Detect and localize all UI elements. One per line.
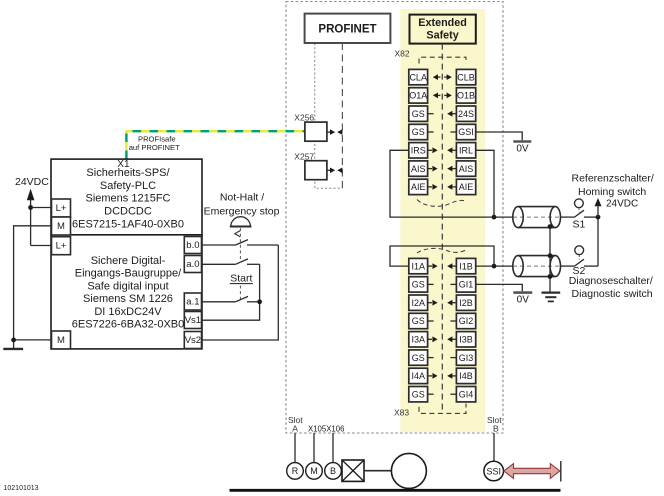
wire I1B to cable <box>476 265 513 267</box>
stub GI3 <box>450 357 456 359</box>
svg-text:SSI: SSI <box>486 466 501 476</box>
drive unit dashed enclosure <box>286 2 503 434</box>
release mark <box>235 231 240 237</box>
svg-text:O1A: O1A <box>409 91 427 101</box>
svg-text:6ES7226-6BA32-0XB0: 6ES7226-6BA32-0XB0 <box>72 319 185 331</box>
wire b.0 <box>202 244 236 246</box>
end stop bar <box>560 461 562 482</box>
signal arrow I3B <box>447 336 456 342</box>
signal arrow IRS <box>428 147 438 153</box>
svg-text:I4A: I4A <box>411 371 425 381</box>
svg-text:Emergency stop: Emergency stop <box>204 205 280 217</box>
svg-text:Eingangs-Baugruppe/: Eingangs-Baugruppe/ <box>75 268 182 280</box>
shielded cable 1 <box>513 207 561 228</box>
svg-text:CLA: CLA <box>409 72 427 82</box>
svg-text:GS: GS <box>412 109 425 119</box>
X257 arrows <box>327 168 343 174</box>
svg-text:X256: X256 <box>294 113 314 123</box>
svg-text:I3A: I3A <box>411 335 425 345</box>
wire M SM <box>14 339 52 341</box>
safe digital input SM1226 box <box>51 235 202 349</box>
svg-text:X105X106: X105X106 <box>308 425 344 434</box>
terminal X82 O1B <box>456 88 475 103</box>
svg-text:I4B: I4B <box>459 371 473 381</box>
start actuator dashed link <box>239 286 241 301</box>
svg-text:Diagnoseschalter/: Diagnoseschalter/ <box>569 275 653 287</box>
signal arrows CLA/CLB <box>433 74 452 80</box>
svg-text:L+: L+ <box>56 241 67 252</box>
terminal X83 GS <box>409 350 428 365</box>
svg-text:Safe digital input: Safe digital input <box>87 280 168 292</box>
svg-text:I2B: I2B <box>459 298 473 308</box>
contact a.1 (NO start) <box>236 296 249 301</box>
signal arrow I3A <box>428 336 438 342</box>
wire I1A loop <box>390 246 494 266</box>
terminal L+ (SM) <box>52 237 71 255</box>
0V symbol upper <box>513 142 531 155</box>
PROFINET bus dashed line <box>341 43 343 188</box>
svg-text:Homing switch: Homing switch <box>578 186 646 198</box>
terminal X83 I1A <box>409 258 428 273</box>
svg-text:PROFINET: PROFINET <box>318 24 376 36</box>
terminal X83 I4B <box>456 368 475 383</box>
signal arrow AIS <box>447 166 456 172</box>
X83 wavy continuation <box>417 248 467 253</box>
Extended Safety box <box>410 15 476 44</box>
signal arrow AIE <box>447 184 456 190</box>
stub GSI <box>450 131 456 133</box>
node a.1/Vs1 rail <box>257 299 262 304</box>
svg-text:a.0: a.0 <box>186 259 199 270</box>
terminal M (CPU) <box>52 217 71 235</box>
24VDC rail right <box>597 216 599 266</box>
0V symbol lower <box>513 293 532 306</box>
svg-text:B: B <box>330 466 336 476</box>
wire a.1 <box>202 301 236 303</box>
switch S1 <box>573 199 599 230</box>
terminal X83 I3A <box>409 332 428 347</box>
svg-text:AIE: AIE <box>411 182 426 192</box>
terminal X83 GI3 <box>456 350 475 365</box>
svg-text:a.1: a.1 <box>186 297 199 308</box>
terminal a.1 <box>184 293 201 310</box>
svg-text:I1B: I1B <box>459 261 473 271</box>
svg-text:M: M <box>57 221 65 232</box>
stub GI1 <box>450 283 456 285</box>
svg-text:A: A <box>292 424 298 434</box>
earth ground <box>542 293 561 302</box>
wire cable1 to S1 <box>561 216 575 218</box>
terminal M (SM) <box>52 331 71 349</box>
svg-text:R: R <box>292 466 299 476</box>
node shield cable2 top <box>548 253 553 258</box>
terminal X82 CLB <box>456 69 475 84</box>
encoder SSI <box>484 461 504 481</box>
PROFIsafe cable (green/yellow) <box>126 131 305 159</box>
signal arrow 24S <box>447 111 456 117</box>
svg-text:I2A: I2A <box>411 298 425 308</box>
terminal X82 AIS <box>456 161 475 176</box>
svg-text:Siemens SM 1226: Siemens SM 1226 <box>83 293 173 305</box>
terminal X83 GS <box>409 313 428 328</box>
stub GS <box>428 131 434 133</box>
terminal X82 AIE <box>456 179 475 194</box>
terminal X83 I4A <box>409 368 428 383</box>
svg-text:Safety-PLC: Safety-PLC <box>100 180 156 192</box>
Extended Safety yellow highlight band <box>400 9 485 432</box>
stub GS <box>428 320 434 322</box>
terminal X83 GI1 <box>456 277 475 292</box>
signal arrow I2B <box>447 300 456 306</box>
svg-text:AIE: AIE <box>459 182 474 192</box>
terminal X83 I2A <box>409 295 428 310</box>
terminal X82 IRL <box>456 143 475 158</box>
terminal b.0 <box>184 237 201 254</box>
motor <box>391 453 426 488</box>
svg-text:DCDCDC: DCDCDC <box>104 206 152 218</box>
svg-text:GS: GS <box>412 389 425 399</box>
24VDC arrow right <box>595 198 602 206</box>
stem R <box>294 433 296 463</box>
svg-text:Not-Halt /: Not-Halt / <box>220 191 264 203</box>
wire GSI to 0V <box>476 132 523 140</box>
terminal X82 GSI <box>456 124 475 139</box>
svg-text:Vs2: Vs2 <box>185 335 201 346</box>
svg-text:GS: GS <box>412 353 425 363</box>
terminal X83 GI2 <box>456 313 475 328</box>
svg-text:102101013: 102101013 <box>4 485 39 492</box>
signal arrow I4B <box>447 373 456 379</box>
svg-text:Sichere Digital-: Sichere Digital- <box>91 255 166 267</box>
terminal X82 CLA <box>409 69 428 84</box>
node L+ tap <box>28 205 33 210</box>
ground (0V bar) left <box>3 348 23 350</box>
stem B <box>332 433 334 463</box>
svg-text:X83: X83 <box>394 407 409 417</box>
signal arrows O1A/O1B <box>433 93 452 99</box>
terminal X83 I1B <box>456 258 475 273</box>
terminal X82 AIE <box>409 179 428 194</box>
rail (thick line) <box>230 489 561 492</box>
terminal X83 GI4 <box>456 387 475 402</box>
wire M CPU <box>14 226 52 349</box>
svg-text:0V: 0V <box>516 144 529 155</box>
node shield cable2 bottom <box>548 274 553 279</box>
svg-text:Extended: Extended <box>418 17 467 29</box>
node M junction <box>11 338 16 343</box>
wire L+ SM <box>31 245 52 247</box>
stem M <box>313 433 315 463</box>
svg-text:S1: S1 <box>573 218 586 230</box>
svg-text:Vs1: Vs1 <box>185 315 201 326</box>
svg-text:X257: X257 <box>294 151 314 161</box>
X256 arrows <box>327 129 343 135</box>
wire a.0 <box>202 263 236 265</box>
wire 24VDC rail <box>30 199 32 246</box>
svg-text:M: M <box>57 335 65 346</box>
svg-text:GI1: GI1 <box>459 280 474 290</box>
encoder R <box>287 463 304 480</box>
signal arrow AIE <box>428 184 438 190</box>
wire mid rail to Vs1 <box>202 264 260 320</box>
terminal X83 GS <box>409 387 428 402</box>
svg-text:DI 16xDC24V: DI 16xDC24V <box>94 306 162 318</box>
contact a.0 (NC) <box>236 259 249 264</box>
svg-text:CLB: CLB <box>457 72 475 82</box>
wire right rail to Vs2 <box>202 245 279 340</box>
port X256 <box>294 113 327 142</box>
stub GI2 <box>450 320 456 322</box>
terminal X82 GS <box>409 124 428 139</box>
24VDC arrow <box>27 189 35 201</box>
svg-text:GS: GS <box>412 316 425 326</box>
svg-text:O1B: O1B <box>457 91 475 101</box>
svg-text:auf PROFINET: auf PROFINET <box>129 143 180 152</box>
signal arrow IRL <box>447 147 456 153</box>
terminal X82 GS <box>409 106 428 121</box>
svg-text:M: M <box>310 466 318 476</box>
terminal X83 I3B <box>456 332 475 347</box>
terminal X82 AIS <box>409 161 428 176</box>
encoder B <box>325 463 342 480</box>
stem SSI <box>493 433 495 461</box>
terminal Vs2 <box>184 332 201 349</box>
port X257 <box>294 151 327 179</box>
svg-text:X82: X82 <box>395 49 410 59</box>
svg-text:IRS: IRS <box>411 146 426 156</box>
signal arrow AIS <box>428 166 438 172</box>
stub GS <box>428 113 434 115</box>
node I1A/I1B <box>492 264 497 269</box>
svg-text:I1A: I1A <box>411 261 425 271</box>
encoder M <box>306 463 323 480</box>
wire L+ CPU <box>31 207 52 209</box>
switch S2 <box>561 246 599 277</box>
X82 connector dashed outline <box>419 57 466 63</box>
stub GS <box>428 393 434 395</box>
svg-text:Start: Start <box>230 273 252 285</box>
svg-text:24VDC: 24VDC <box>606 199 638 210</box>
wire GI1 to 0V <box>476 284 523 291</box>
svg-text:GI2: GI2 <box>459 316 474 326</box>
X256/X257 dotted link <box>315 43 343 188</box>
svg-text:Safety: Safety <box>426 30 458 42</box>
PROFINET box <box>305 14 391 43</box>
signal arrow I1A <box>428 263 438 269</box>
svg-text:GI3: GI3 <box>459 353 474 363</box>
emergency stop mushroom head <box>231 217 251 227</box>
terminal X82 IRS <box>409 143 428 158</box>
connector centre dashed line <box>441 44 443 414</box>
svg-text:0V: 0V <box>517 295 530 306</box>
shaft link <box>364 470 391 472</box>
terminal a.0 <box>184 256 201 273</box>
X82 wavy continuation <box>417 200 467 207</box>
X83 connector dashed outline <box>419 404 466 414</box>
wire IRL <box>476 150 494 217</box>
svg-text:X1: X1 <box>117 159 130 170</box>
signal arrow I4A <box>428 373 438 379</box>
terminal L+ (CPU) <box>52 199 71 217</box>
svg-text:AIS: AIS <box>411 164 426 174</box>
signal arrow I1B <box>447 263 456 269</box>
svg-text:GI4: GI4 <box>459 389 474 399</box>
svg-text:GS: GS <box>412 280 425 290</box>
svg-text:B: B <box>493 424 499 434</box>
contact b.0 (NC) <box>236 240 249 245</box>
signal arrow I2A <box>428 300 438 306</box>
svg-text:GS: GS <box>412 127 425 137</box>
terminal X83 GS <box>409 277 428 292</box>
svg-text:I3B: I3B <box>459 335 473 345</box>
svg-text:Diagnostic switch: Diagnostic switch <box>572 288 653 300</box>
svg-text:AIS: AIS <box>459 164 474 174</box>
stub GI4 <box>450 393 456 395</box>
shield drain wire <box>549 227 551 293</box>
svg-text:b.0: b.0 <box>186 240 199 251</box>
svg-text:Referenzschalter/: Referenzschalter/ <box>572 172 654 184</box>
svg-text:Siemens 1215FC: Siemens 1215FC <box>86 193 171 205</box>
terminal Vs1 <box>184 312 201 329</box>
brake box <box>342 460 364 481</box>
terminal X82 24S <box>456 106 475 121</box>
shielded cable 2 <box>513 256 561 277</box>
terminal X82 O1A <box>409 88 428 103</box>
svg-text:24VDC: 24VDC <box>15 176 49 188</box>
stub GS <box>428 283 434 285</box>
stub GS <box>428 357 434 359</box>
SSI data double arrow <box>504 464 560 479</box>
actuator dashed link <box>239 228 241 262</box>
safety PLC CPU box <box>51 159 202 235</box>
svg-text:L+: L+ <box>56 203 67 214</box>
svg-text:6ES7215-1AF40-0XB0: 6ES7215-1AF40-0XB0 <box>72 218 184 230</box>
svg-text:24S: 24S <box>458 109 474 119</box>
node shield cable1 <box>548 224 553 229</box>
svg-text:IRL: IRL <box>459 146 473 156</box>
terminal X83 I2B <box>456 295 475 310</box>
svg-text:GSI: GSI <box>458 127 474 137</box>
node IRL/cable <box>492 215 497 220</box>
wire IRS loop <box>390 150 513 217</box>
